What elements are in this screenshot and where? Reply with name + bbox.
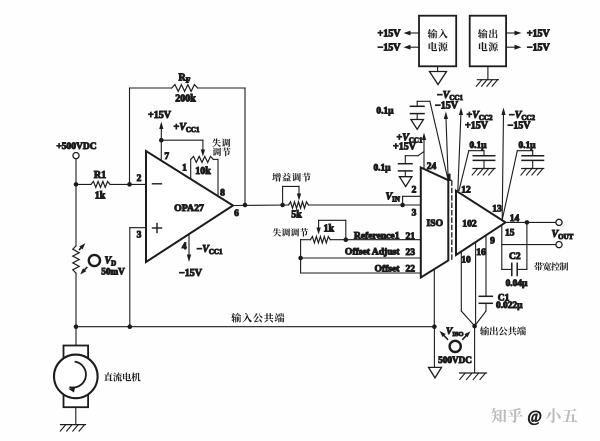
- capacitor 0.1u D: [503, 141, 544, 218]
- node I pot left: [344, 237, 349, 242]
- block input power supply: [419, 16, 456, 67]
- svg-text:9: 9: [490, 237, 495, 247]
- ground motor hatched: [60, 425, 85, 432]
- op-amp U1 OPA27: [146, 151, 233, 262]
- iso amp U2 ISO102 input side: [421, 168, 449, 278]
- svg-text:16: 16: [476, 248, 486, 258]
- dc motor M body: [54, 355, 98, 399]
- wire feedback right vertical: [244, 88, 246, 205]
- label bandwidth control: [534, 262, 568, 270]
- svg-text:12: 12: [461, 185, 471, 195]
- svg-text:1: 1: [182, 163, 187, 173]
- node J offset adjust: [298, 256, 303, 261]
- svg-text:−15V: −15V: [508, 120, 532, 131]
- pin 2 label: [137, 174, 142, 184]
- wire VD to common: [75, 273, 77, 327]
- svg-text:0.1µ: 0.1µ: [469, 141, 487, 151]
- terminal VOUT upper: [556, 219, 562, 225]
- svg-text:0.04µ: 0.04µ: [506, 279, 528, 289]
- label -VCC2 -15V: [508, 110, 536, 131]
- pin 9 label: [490, 237, 495, 247]
- pin 15 label: [505, 228, 515, 238]
- svg-text:3: 3: [412, 209, 417, 219]
- capacitor 0.1u A: [373, 152, 424, 177]
- svg-text:0.1µ: 0.1µ: [518, 141, 536, 151]
- wire output pin14: [506, 221, 556, 223]
- node F common pin3: [128, 324, 133, 329]
- pin 24 label: [427, 162, 437, 172]
- label offset adjust chinese 2: [273, 228, 309, 237]
- arrow box2 +15V: [506, 29, 550, 40]
- label gain adjust chinese: [272, 173, 311, 182]
- svg-text:500VDC: 500VDC: [438, 355, 472, 365]
- node L output common: [472, 324, 477, 329]
- svg-text:+15V: +15V: [465, 120, 489, 131]
- label dc motor: [104, 372, 141, 381]
- pin 3 ISO label: [412, 209, 417, 219]
- pin 3 wire: [130, 228, 146, 327]
- label input common: [231, 313, 284, 323]
- capacitor 0.1u C: [459, 141, 495, 190]
- svg-text:3: 3: [137, 230, 142, 240]
- wire feedback top left: [130, 87, 172, 89]
- svg-text:Reference1: Reference1: [354, 230, 400, 241]
- svg-text:ISO: ISO: [427, 218, 444, 229]
- svg-text:0.1µ: 0.1µ: [376, 106, 394, 116]
- node B junction (pin2/feedback): [127, 182, 132, 187]
- source VD zigzag: [73, 246, 79, 273]
- pin 15 wire: [502, 225, 556, 269]
- svg-text:2: 2: [137, 174, 142, 184]
- wire +500VDC to node A: [75, 159, 77, 185]
- svg-text:+15V: +15V: [393, 141, 417, 152]
- label -VCC1 -15V top: [435, 90, 463, 111]
- watermark zhihu: [491, 408, 577, 426]
- svg-text:24: 24: [427, 162, 437, 172]
- wire node A to R1: [76, 183, 91, 185]
- source VD symbol: [79, 242, 100, 276]
- wire Reference pin 21: [346, 230, 421, 242]
- label VIN: [386, 192, 400, 204]
- svg-text:@: @: [528, 409, 542, 426]
- node H VIN junction: [400, 203, 405, 208]
- wire opamp output: [233, 204, 289, 207]
- wire output common to ground: [474, 326, 476, 373]
- pin 13 label: [492, 204, 502, 214]
- arrow box2 -15V: [506, 43, 550, 54]
- potentiometer 5k gain: [283, 186, 309, 220]
- node K output: [525, 220, 530, 225]
- svg-text:+500VDC: +500VDC: [56, 142, 96, 152]
- wire R1 to node B: [110, 183, 146, 185]
- svg-text:−15V: −15V: [378, 43, 402, 54]
- isolation barrier dashed: [451, 181, 453, 260]
- ground input triangle: [429, 367, 442, 378]
- arrow box1 -15V: [378, 43, 419, 54]
- svg-text:22: 22: [406, 264, 416, 274]
- svg-text:4: 4: [182, 242, 187, 252]
- node E common motor: [74, 324, 79, 329]
- ground iso B triangle: [411, 120, 424, 130]
- svg-text:102: 102: [462, 219, 477, 230]
- svg-text:OPA27: OPA27: [174, 203, 204, 214]
- svg-text:0.022µ: 0.022µ: [496, 301, 523, 311]
- node D output junction: [243, 203, 248, 208]
- svg-text:10k: 10k: [195, 166, 211, 177]
- svg-text:Offset: Offset: [374, 263, 400, 274]
- svg-text:−15V: −15V: [435, 100, 459, 111]
- svg-text:23: 23: [406, 248, 416, 258]
- svg-text:200k: 200k: [175, 94, 196, 105]
- pin 12 label: [461, 185, 471, 195]
- wire to offset pot wiper: [161, 140, 203, 149]
- arrow box1 +15V: [378, 29, 419, 40]
- dc motor M frame: [64, 346, 89, 408]
- pin 1 label: [447, 174, 452, 184]
- ground D hatched: [521, 169, 544, 176]
- svg-text:7: 7: [164, 152, 169, 162]
- block output power supply: [470, 16, 506, 67]
- wire pin16 down: [475, 242, 477, 326]
- resistor R1 1k: [91, 170, 110, 201]
- svg-text:R1: R1: [94, 170, 106, 181]
- svg-text:21: 21: [406, 232, 416, 242]
- pin 2 ISO jog wire: [403, 186, 421, 205]
- svg-text:1k: 1k: [95, 191, 106, 202]
- pin 6 label: [234, 209, 239, 219]
- label offset adjust chinese: [212, 138, 230, 156]
- wire Offset pin 22: [301, 263, 421, 274]
- wire node K down to C2: [526, 222, 528, 269]
- wire feedback left vertical: [129, 88, 131, 184]
- wire gain pot to VIN: [309, 204, 421, 206]
- arrow -VCC2 pin13: [501, 108, 505, 220]
- pin 4 wire -15V: [179, 234, 223, 279]
- label +VCC1 +15V iso: [393, 132, 423, 152]
- wire feedback top right: [198, 87, 245, 89]
- ground box1 triangle: [430, 66, 447, 84]
- arrow offset pot wiper: [201, 150, 205, 157]
- label VISO: [446, 327, 464, 338]
- svg-text:13: 13: [492, 204, 502, 214]
- svg-text:+15V: +15V: [378, 29, 402, 40]
- svg-text:2: 2: [412, 186, 417, 196]
- potentiometer 1k offset: [310, 220, 345, 243]
- svg-text:6: 6: [234, 209, 239, 219]
- ground output hatched: [460, 373, 487, 380]
- node M input common end: [432, 324, 437, 329]
- label 500VDC: [438, 355, 472, 365]
- ground iso A triangle: [399, 177, 412, 187]
- potentiometer 10k offset: [182, 156, 225, 198]
- label +15V opamp supply: [148, 110, 172, 121]
- node C supply junction: [159, 138, 164, 143]
- svg-text:1k: 1k: [324, 224, 335, 235]
- svg-text:0.1µ: 0.1µ: [373, 163, 391, 173]
- svg-text:Offset Adjust: Offset Adjust: [345, 247, 400, 258]
- wire pin7 supply: [161, 140, 169, 162]
- label VOUT: [552, 229, 574, 241]
- pin 14 label: [510, 214, 520, 224]
- resistor RF 200k feedback: [172, 73, 198, 105]
- ground box2 hatched: [476, 66, 498, 86]
- terminal +500VDC input: [56, 142, 96, 159]
- svg-text:C2: C2: [509, 252, 521, 262]
- label +VCC2 +15V: [465, 110, 493, 131]
- svg-text:10: 10: [461, 255, 471, 265]
- pin 10 label: [461, 255, 471, 265]
- source VISO symbol: [438, 329, 472, 352]
- wire iso bottom pin: [433, 269, 435, 326]
- svg-text:15: 15: [505, 228, 515, 238]
- node G gain pot left: [280, 203, 285, 208]
- terminal VOUT lower: [556, 242, 562, 248]
- wire common to motor: [75, 327, 77, 346]
- capacitor 0.1u B: [376, 101, 448, 179]
- svg-text:+15V: +15V: [148, 110, 172, 121]
- arrow +VCC2 pin12: [458, 108, 463, 192]
- wire node A down: [75, 184, 77, 245]
- label output common: [480, 326, 526, 335]
- svg-text:−15V: −15V: [527, 43, 551, 54]
- capacitor C2 0.04u: [502, 252, 528, 289]
- label VD 50mV: [101, 256, 125, 277]
- svg-text:+15V: +15V: [527, 29, 551, 40]
- label +VCC1 opamp: [174, 122, 200, 134]
- wire motor to ground: [75, 407, 77, 424]
- wire pin10 down: [461, 252, 474, 326]
- wire 1k pot left lead: [301, 240, 311, 273]
- wire Offset Adjust pin 23: [301, 247, 421, 259]
- node A junction: [74, 182, 79, 187]
- svg-text:50mV: 50mV: [101, 267, 125, 277]
- svg-text:5k: 5k: [291, 210, 302, 221]
- capacitor C1 0.022u: [475, 236, 523, 326]
- ground C hatched: [472, 169, 495, 176]
- arrow +VCC1 pin24: [422, 133, 426, 170]
- arrow -VCC1 pin1: [444, 112, 448, 181]
- arrow +15V supply up: [159, 122, 163, 141]
- wire input common line: [76, 326, 434, 328]
- pin 16 label: [476, 248, 486, 258]
- svg-text:−15V: −15V: [179, 268, 203, 279]
- wire input common to triangle ground: [433, 327, 435, 368]
- iso amp U2 ISO102 output side: [456, 191, 506, 255]
